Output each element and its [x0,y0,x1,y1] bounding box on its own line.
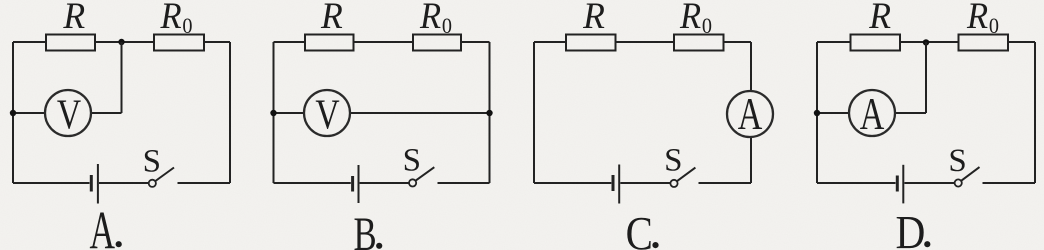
resistor R (circuit A) [46,35,95,51]
wire: top horizontal of circuit D [817,41,1035,43]
node: junction dot on right wire (circuit B) [486,110,492,116]
resistor R0 (circuit C) [674,35,724,51]
switch S lever (circuit C) [677,168,695,182]
node: junction dot on left wire (circuit D) [814,110,820,116]
wire: switch to right corner segment (circuit B) [438,182,490,184]
wire: top horizontal of circuit C [534,41,751,43]
battery cell negative short plate (circuit D) [896,176,899,192]
resistor R0 (circuit A) [154,35,204,51]
paper noise overlay (decorative) [0,0,1,1]
wire: bottom left segment to battery (circuit B) [274,182,351,184]
ammeter U3 circle in right wire (circuit C) [727,91,773,137]
battery cell negative short plate (circuit C) [612,175,615,191]
label answer choice A period [116,241,122,247]
switch S pivot circle (circuit D) [955,179,962,186]
node: junction dot on left wire (circuit B) [270,110,276,116]
resistor R0 (circuit D) [959,35,1009,51]
label answer choice B period [376,243,382,249]
wire: right vertical of circuit A [229,42,231,183]
switch S pivot circle (circuit B) [409,179,416,186]
battery cell positive long plate (circuit B) [358,165,360,203]
wire: bottom left segment to battery (circuit C) [534,182,611,184]
label answer choice C period [652,242,658,248]
wire: switch to right corner segment (circuit D) [983,182,1036,184]
wire: ammeter branch vertical up to R-R0 node (circuit D) [925,42,927,113]
resistor R (circuit D) [851,35,901,51]
ammeter U4 circle (circuit D) [849,90,895,136]
wire: left vertical of circuit A [12,42,14,183]
switch S lever (circuit A) [155,168,174,182]
wire: bottom left segment to battery (circuit A) [13,182,90,184]
switch S lever (circuit B) [416,167,435,180]
node: junction dot between R and R0 (circuit D) [923,39,929,45]
wire: switch to right corner segment (circuit C) [699,182,752,184]
wire: battery to switch segment (circuit D) [904,182,954,184]
node: junction dot between R and R0 (circuit A) [118,39,124,45]
wire: left vertical of circuit D [816,42,818,183]
wire: bottom left segment to battery (circuit D) [817,182,896,184]
battery cell negative short plate (circuit A) [90,175,93,192]
wire: voltmeter branch horizontal (circuit A) [13,112,122,114]
switch S pivot circle (circuit A) [149,180,156,187]
wire: left vertical of circuit B [273,42,275,183]
wire: right vertical of circuit C [750,42,752,183]
switch S lever (circuit D) [961,167,979,181]
battery cell positive long plate (circuit C) [618,165,620,204]
wire: ammeter branch horizontal (circuit D) [817,112,926,114]
node: junction dot on left wire (circuit A) [10,110,16,116]
wire: top horizontal of circuit B [274,41,490,43]
wire: voltmeter branch across both resistors (circuit B) [274,112,490,114]
voltmeter U2 circle (circuit B) [304,90,350,136]
resistor R0 (circuit B) [413,35,461,51]
battery cell positive long plate (circuit D) [902,165,904,204]
wire: left vertical of circuit C [533,42,535,183]
wire: switch to right corner segment (circuit A) [178,182,231,184]
wire: battery to switch segment (circuit A) [99,182,149,184]
battery cell positive long plate (circuit A) [97,164,99,204]
wire: top horizontal of circuit A [13,41,230,43]
wire: right vertical of circuit D [1034,42,1036,183]
resistor R (circuit B) [305,35,354,51]
label answer choice D period [924,241,930,247]
wire: right vertical of circuit B [489,42,491,183]
resistor R (circuit C) [566,35,616,51]
voltmeter U1 circle (circuit A) [45,90,91,136]
switch S pivot circle (circuit C) [670,180,677,187]
wire: battery to switch segment (circuit C) [620,182,670,184]
battery cell negative short plate (circuit B) [351,176,354,192]
wire: voltmeter branch vertical up to R-R0 node (circuit A) [121,42,123,113]
wire: battery to switch segment (circuit B) [360,182,409,184]
